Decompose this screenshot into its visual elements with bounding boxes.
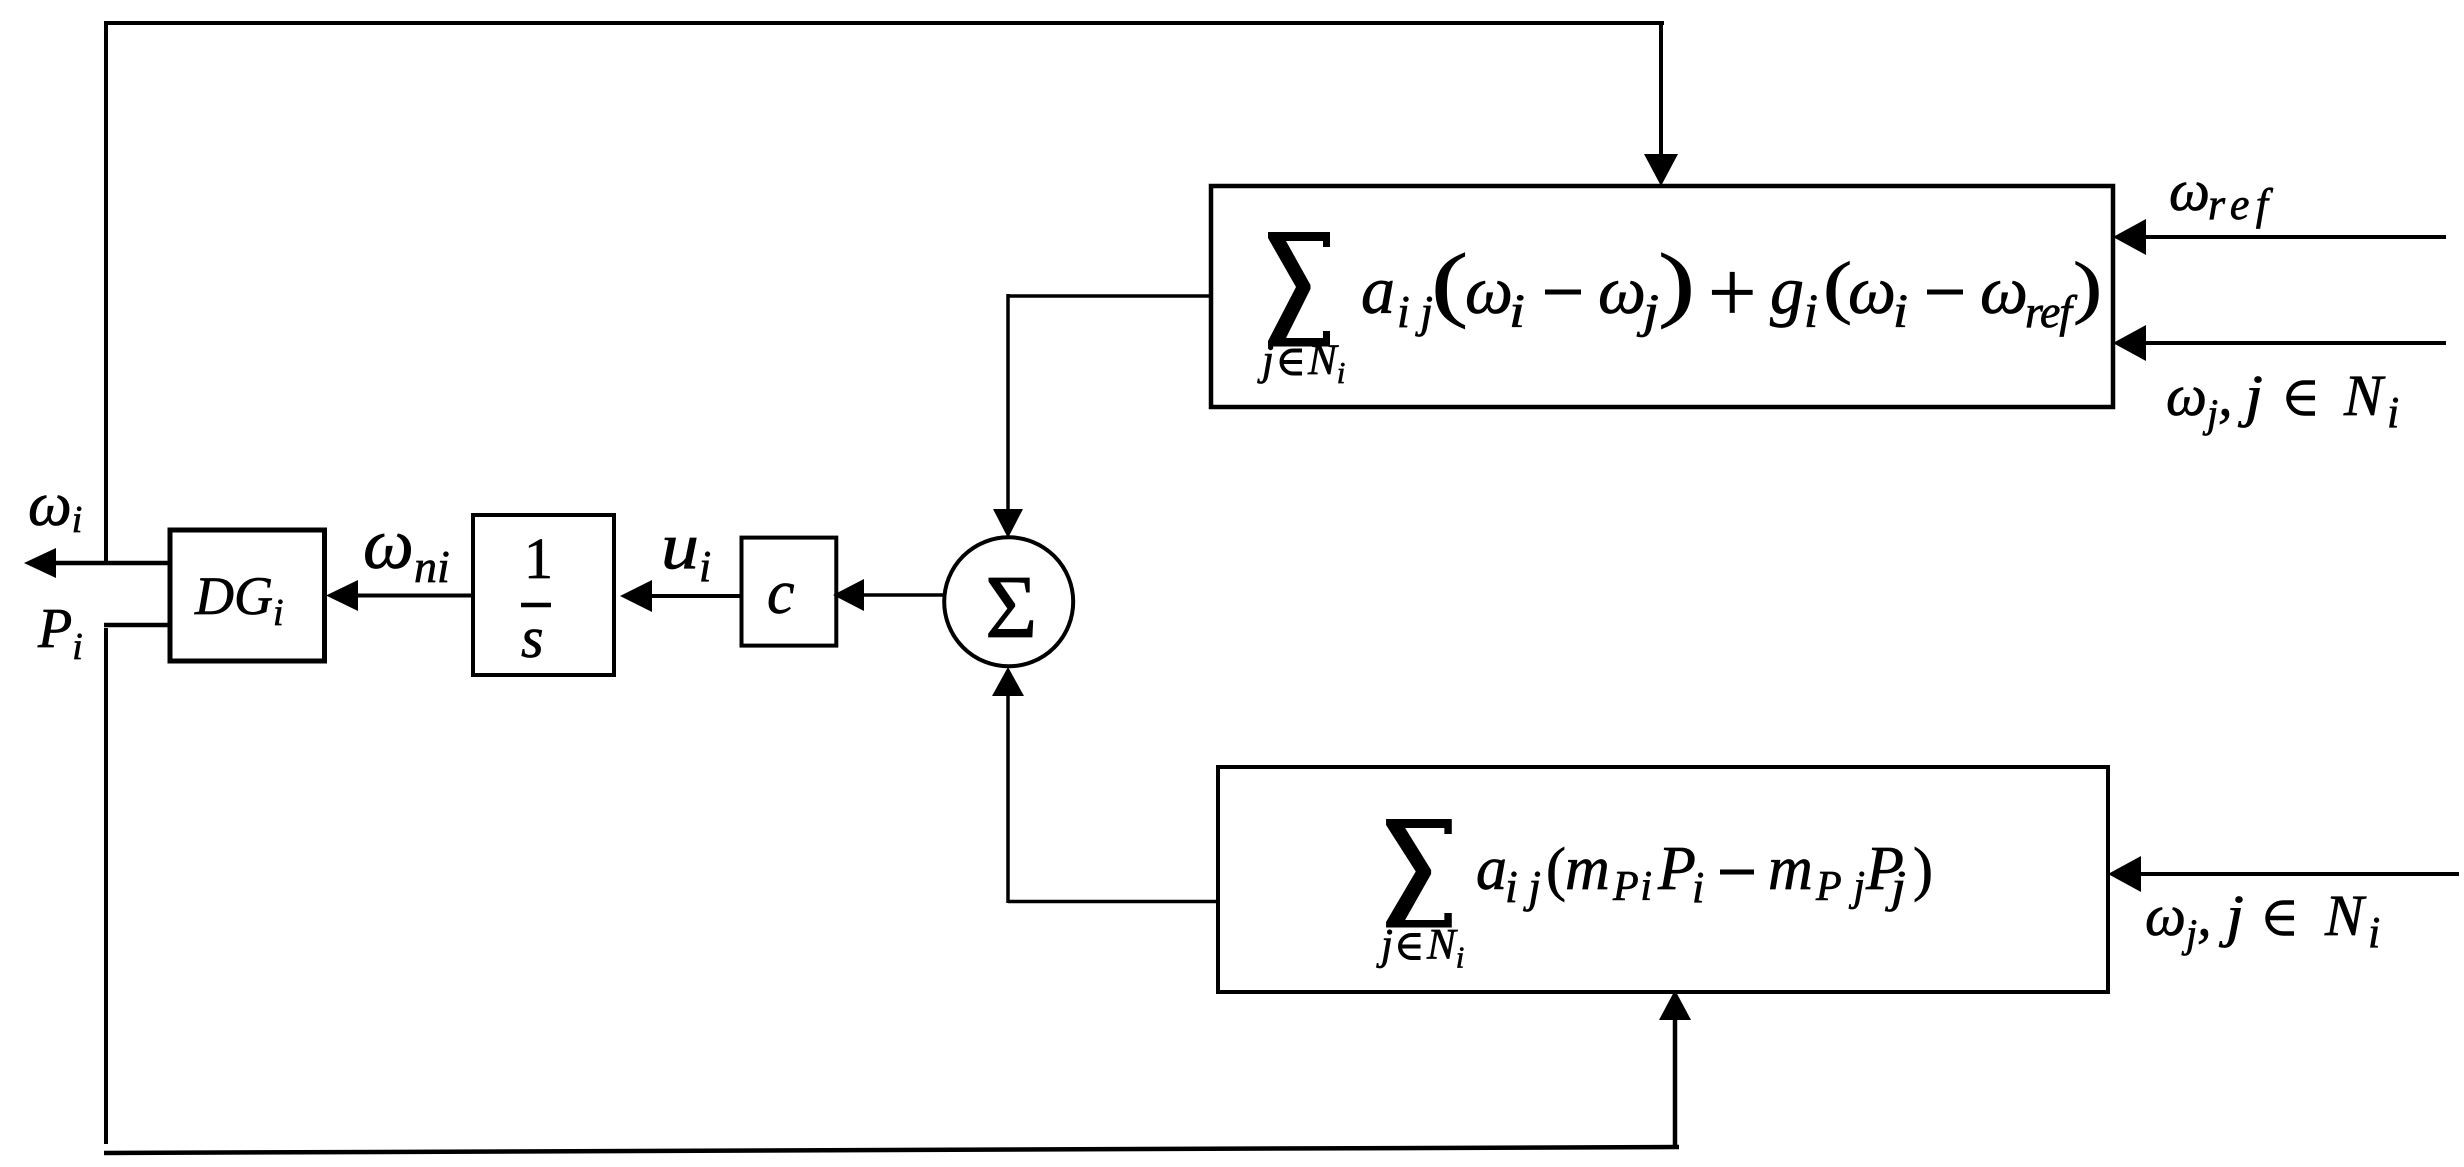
- svg-text:i: i: [1692, 863, 1704, 912]
- node omega_j label (lower): [2145, 883, 2380, 957]
- svg-text:ref: ref: [2025, 286, 2078, 337]
- wire: omega_i output arrow: [24, 548, 170, 578]
- svg-text:ni: ni: [414, 541, 450, 592]
- svg-text:ω: ω: [1848, 252, 1896, 328]
- svg-text:P: P: [1657, 835, 1696, 903]
- block: DG_i: [170, 530, 325, 661]
- wire: P_i stub: [104, 623, 170, 628]
- svg-text:u: u: [661, 510, 699, 583]
- block: upper consensus block: [1211, 186, 2113, 407]
- svg-text:Σ: Σ: [985, 558, 1037, 657]
- svg-text:g: g: [1770, 252, 1804, 328]
- svg-text:ω: ω: [1465, 252, 1513, 328]
- svg-text:+: +: [1708, 244, 1757, 340]
- svg-text:ω: ω: [1980, 252, 2028, 328]
- wire: left lower vertical (P_i feedback): [104, 628, 108, 1144]
- svg-text:a: a: [1361, 252, 1395, 328]
- svg-text:1: 1: [524, 526, 553, 591]
- svg-text:m: m: [1565, 835, 1610, 903]
- wire: integrator to DG arrow: [326, 580, 473, 611]
- equation lower block main line: [1476, 835, 1933, 912]
- summing junction circle: [944, 537, 1073, 666]
- svg-text:): ): [1658, 237, 1695, 330]
- svg-text:ωj,: ωj,: [2166, 363, 2233, 436]
- svg-text:ω: ω: [1598, 252, 1646, 328]
- svg-text:(: (: [1431, 237, 1468, 330]
- wire: top feedback line: [104, 21, 1664, 561]
- svg-text:i: i: [2387, 388, 2399, 437]
- svg-text:): ): [2073, 248, 2102, 326]
- svg-text:a: a: [1476, 835, 1507, 903]
- svg-text:i: i: [699, 542, 711, 591]
- j in N_i under sigma (lower block): [1376, 922, 1464, 975]
- svg-text:ω: ω: [363, 504, 414, 584]
- wire: lower block to sum junction: [992, 667, 1218, 903]
- svg-text:N: N: [2324, 883, 2367, 948]
- big sigma (lower block): [1386, 819, 1452, 928]
- wire: sum to c gain arrow: [833, 579, 944, 611]
- wire: bottom feedback line: [104, 1147, 1679, 1153]
- wire: bottom riser into lower block: [1659, 990, 1691, 1148]
- svg-text:N: N: [2343, 363, 2386, 428]
- svg-text:c: c: [767, 559, 795, 627]
- svg-text:Pj: Pj: [1815, 864, 1865, 910]
- wire: omega_j input arrow (upper): [2113, 325, 2446, 361]
- svg-text:ω: ω: [2169, 158, 2210, 223]
- block: lower consensus block: [1218, 767, 2108, 992]
- svg-text:m: m: [1768, 835, 1813, 903]
- equation upper block main line: [1361, 237, 2102, 340]
- svg-text:i: i: [2368, 908, 2380, 957]
- block: integrator 1/s: [473, 515, 614, 675]
- svg-text:i: i: [1804, 285, 1818, 338]
- block: gain c: [742, 538, 837, 646]
- svg-text:ref: ref: [2208, 180, 2274, 229]
- wire: c to integrator arrow: [620, 580, 741, 612]
- big sigma (upper block): [1268, 232, 1330, 347]
- j in N_i under sigma (upper block): [1257, 337, 1345, 390]
- wire: top riser into upper block: [1644, 23, 1678, 186]
- wire: upper block to sum junction: [993, 294, 1211, 538]
- svg-text:ωj,: ωj,: [2145, 883, 2212, 956]
- svg-text:): ): [1913, 836, 1933, 902]
- wire: omega_ref input arrow: [2113, 219, 2446, 255]
- svg-text:i: i: [1509, 285, 1525, 338]
- wire: omega_j input arrow (lower): [2108, 856, 2459, 892]
- node omega_j label (upper): [2166, 363, 2399, 437]
- svg-text:Pi: Pi: [1612, 864, 1652, 910]
- svg-text:s: s: [521, 605, 544, 670]
- 1/s label: [521, 526, 553, 670]
- svg-text:i: i: [1893, 285, 1908, 338]
- svg-text:(: (: [1546, 836, 1566, 902]
- svg-text:DGi: DGi: [194, 566, 284, 634]
